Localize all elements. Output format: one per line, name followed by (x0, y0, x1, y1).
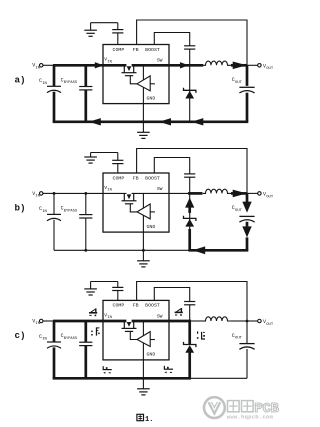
wire ground return rail (a) (53, 118, 249, 125)
pin label SW (b) (157, 186, 163, 192)
svg-text:IN: IN (107, 60, 112, 64)
svg-text:OUT: OUT (266, 195, 274, 199)
inductor L1 (c) (203, 317, 232, 321)
pin label GND (c) (146, 352, 155, 358)
capacitor CBYPASS (b) (61, 193, 93, 250)
wire VIN terminal to input node (c) (43, 320, 54, 322)
terminal VOUT (b) (247, 192, 274, 200)
inductor L1 (a) (203, 61, 232, 65)
svg-text:IN: IN (35, 66, 40, 70)
transistor Q1 power MOSFET (a) (122, 63, 137, 75)
capacitor C_COMP compensation (c) (91, 282, 124, 301)
svg-text:BOOST: BOOST (145, 175, 160, 181)
waveform icon diode current (c) (196, 331, 205, 339)
pin label VIN (a) (104, 57, 112, 65)
svg-text:AA 513: AA 513 (252, 404, 267, 408)
op-amp U1 gate driver (a) (130, 76, 155, 91)
svg-text:IN: IN (42, 210, 47, 214)
capacitor C_BOOST bootstrap (a) (184, 46, 195, 66)
diode D1 catch diode (a) (184, 65, 196, 122)
svg-text:FB: FB (133, 303, 139, 309)
svg-text:IN: IN (42, 82, 47, 86)
svg-text:GND: GND (146, 224, 155, 230)
label b) subcircuit (15, 202, 26, 213)
wire BOOST net (c) (154, 288, 189, 302)
capacitor COUT (c) (232, 321, 255, 378)
svg-text:OUT: OUT (235, 81, 243, 85)
waveform icon input current (c) (89, 308, 97, 316)
svg-text:IN: IN (107, 189, 112, 193)
wire internal to GND pin (b) (142, 193, 144, 260)
svg-text:c): c) (15, 330, 26, 341)
transistor Q1 power MOSFET (b) (122, 191, 137, 203)
ground COMP network (c) (84, 282, 97, 296)
op-amp U1 gate driver (b) (130, 204, 155, 219)
svg-text:SW: SW (157, 186, 163, 192)
pin label VIN (c) (104, 312, 112, 320)
svg-text:SW: SW (157, 58, 163, 64)
svg-text:IN: IN (35, 322, 40, 326)
watermark brand glyphs (228, 401, 279, 418)
svg-text:COMP: COMP (113, 175, 125, 181)
wire BOOST net (a) (154, 33, 189, 46)
wire ground return rail (c) (53, 377, 247, 380)
diode D1 catch diode with current arrow (b) (184, 193, 196, 250)
wire SW output segment (a) (169, 62, 203, 68)
waveform icon ground current left (c) (103, 366, 112, 374)
wire VIN terminal to input node (b) (43, 192, 54, 194)
capacitor C_BOOST bootstrap (c) (184, 302, 195, 322)
ground COMP network (b) (84, 153, 97, 164)
svg-text:IN: IN (107, 316, 112, 320)
svg-text:www.hqpcb.com: www.hqpcb.com (227, 413, 274, 420)
capacitor CIN (a) (39, 65, 61, 122)
terminal VOUT (a) (247, 64, 274, 72)
wire internal VIN-SW power path (a) (103, 64, 169, 67)
svg-text:GND: GND (146, 95, 155, 101)
wire BOOST net (b) (154, 158, 189, 174)
capacitor C_BOOST bootstrap (b) (184, 174, 195, 194)
svg-text:OUT: OUT (266, 323, 274, 327)
svg-text:IN: IN (42, 338, 47, 342)
caption figure 1 (137, 414, 154, 424)
capacitor CBYPASS (a) (61, 65, 93, 122)
wire input node to IC VIN pin (c) (53, 320, 104, 323)
capacitor CBYPASS (c) (61, 321, 93, 378)
pin label SW (c) (157, 313, 163, 319)
wire input node to IC VIN pin (a) (53, 62, 104, 68)
svg-text:b): b) (15, 202, 26, 213)
wire internal VIN-SW power path (b) (103, 192, 169, 194)
capacitor C_COMP compensation (a) (91, 23, 124, 45)
op-amp/regulator IC U1 box (b) (103, 173, 169, 232)
terminal VIN input (b) (32, 191, 43, 199)
node VOUT junction dot (c) (246, 320, 249, 323)
svg-text:OUT: OUT (266, 67, 274, 71)
svg-text:OUT: OUT (235, 209, 243, 213)
wire inductor to VOUT node (c) (231, 320, 247, 322)
wire input node to IC VIN pin (b) (53, 192, 104, 194)
capacitor CIN (c) (39, 321, 61, 378)
wire SW output segment (b) (169, 192, 203, 194)
terminal VOUT (c) (247, 319, 274, 327)
pin labels COMP FB BOOST (c) (113, 303, 160, 309)
op-amp/regulator IC U1 box (a) (103, 45, 169, 104)
svg-text:FB: FB (133, 47, 139, 53)
svg-text:GND: GND (146, 352, 155, 358)
inductor L1 (b) (203, 189, 232, 193)
wire FB feedback net (c) (137, 282, 247, 322)
ground IC GND pin (c) (137, 389, 150, 395)
op-amp U1 gate driver (c) (130, 331, 155, 346)
wire FB feedback net (a) (137, 20, 247, 65)
waveform icon ground current right (c) (164, 366, 173, 374)
svg-text:FB: FB (133, 175, 139, 181)
waveform icon bypass cap current (c) (91, 327, 100, 335)
capacitor COUT (a) (232, 65, 255, 122)
svg-text:BYPASS: BYPASS (64, 209, 78, 213)
svg-text:BOOST: BOOST (145, 47, 160, 53)
op-amp/regulator IC U1 box (c) (103, 300, 169, 360)
svg-text:a): a) (15, 74, 26, 85)
ground COMP network (a) (84, 23, 97, 37)
capacitor COUT (b) (232, 193, 255, 250)
wire internal to GND pin (a) (142, 65, 144, 132)
svg-text:BOOST: BOOST (145, 303, 160, 309)
ground IC GND pin (b) (137, 261, 150, 267)
watermark url (227, 413, 274, 420)
wire internal VIN-SW power path (c) (103, 320, 169, 323)
pin labels COMP FB BOOST (b) (113, 175, 160, 181)
wire ground return rail (b) (54, 246, 248, 254)
svg-text:COMP: COMP (113, 303, 125, 309)
waveform icon switch current (c) (175, 308, 183, 316)
node junction dots (b) (53, 192, 145, 252)
svg-text:SW: SW (157, 313, 163, 319)
transistor Q1 power MOSFET (c) (122, 319, 137, 331)
label c) subcircuit (15, 330, 26, 341)
svg-text:COMP: COMP (113, 47, 125, 53)
diode D1 catch diode (c) (184, 321, 196, 378)
label a) subcircuit (15, 74, 26, 85)
pin label GND (a) (146, 95, 155, 101)
terminal VIN input (c) (32, 318, 43, 326)
wire inductor to VOUT node with arrow (b) (231, 190, 247, 198)
pin label VIN (b) (104, 185, 112, 193)
capacitor CIN (b) (39, 193, 61, 250)
svg-text:1.: 1. (145, 416, 153, 424)
pin label SW (a) (157, 58, 163, 64)
wire VIN terminal to input node (a) (43, 64, 54, 66)
wire inductor to VOUT node with arrow (a) (231, 62, 247, 70)
svg-text:IN: IN (35, 195, 40, 199)
capacitor C_COMP compensation (b) (91, 153, 124, 174)
ground IC GND pin (a) (137, 132, 150, 138)
pin label GND (b) (146, 224, 155, 230)
wire SW output segment (c) (169, 320, 206, 323)
wire FB feedback net (b) (137, 149, 247, 194)
wire internal to GND pin (c) (142, 321, 144, 389)
svg-text:BYPASS: BYPASS (64, 337, 78, 341)
svg-text:OUT: OUT (235, 337, 243, 341)
svg-text:BYPASS: BYPASS (64, 81, 78, 85)
watermark logo circle (204, 397, 225, 418)
terminal VIN input (a) (32, 63, 43, 71)
pin labels COMP FB BOOST (a) (113, 47, 160, 53)
